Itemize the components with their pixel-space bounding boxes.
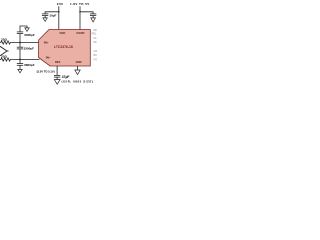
wire OVDD supply xyxy=(79,6,81,29)
svg-text:REF: REF xyxy=(55,60,61,64)
node OVDD branch junction dot xyxy=(79,11,81,13)
capacitor C5 OVDD bypass xyxy=(90,14,96,18)
capacitor C3 6800pF bottom xyxy=(17,60,23,70)
capacitor C1 6800pF top xyxy=(17,26,27,43)
ground for C3 xyxy=(18,69,22,73)
wire top path to node A xyxy=(11,42,38,44)
node A junction dot xyxy=(19,42,21,44)
ground for C1 xyxy=(25,28,29,32)
wire VDD bypass branch xyxy=(45,12,59,14)
svg-text:47µF: 47µF xyxy=(62,75,70,79)
svg-text:6800pF: 6800pF xyxy=(24,33,35,37)
ground for C5 xyxy=(91,18,96,22)
ground for C4 xyxy=(43,18,47,22)
ground for GND pin xyxy=(75,70,80,75)
svg-text:SC: SC xyxy=(93,37,97,40)
svg-text:25Ω: 25Ω xyxy=(1,38,7,42)
node B junction dot xyxy=(19,59,21,61)
wire GND pin down xyxy=(77,66,79,70)
svg-text:SD: SD xyxy=(93,41,97,44)
capacitor C6 47uF REF bypass xyxy=(54,75,60,79)
svg-text:(X5R, 0805 SIZE): (X5R, 0805 SIZE) xyxy=(62,79,94,83)
capacitor C2 3300pF between paths xyxy=(17,43,23,60)
svg-text:RDL: RDL xyxy=(92,32,97,35)
svg-text:1.8V TO 5V: 1.8V TO 5V xyxy=(70,2,90,6)
wire VDD supply xyxy=(58,6,60,29)
svg-text:OV DD: OV DD xyxy=(76,31,84,35)
wire bottom path to node B xyxy=(11,59,39,61)
svg-text:25Ω: 25Ω xyxy=(1,55,7,59)
resistor R2 25ohm bottom xyxy=(0,58,11,61)
svg-text:(2.5V TO 5.1V): (2.5V TO 5.1V) xyxy=(37,70,55,74)
wire REF pin down xyxy=(56,66,58,75)
ADC U2 LTC2376-18 body xyxy=(39,30,91,67)
op-amp U1 driver (cropped at left edge) xyxy=(0,46,9,56)
svg-text:PO: PO xyxy=(94,58,98,61)
wire OVDD bypass branch xyxy=(80,12,93,14)
resistor R1 25ohm top xyxy=(0,41,11,44)
svg-text:3300pF: 3300pF xyxy=(24,47,35,51)
svg-text:IN+: IN+ xyxy=(44,40,49,44)
svg-text:V DD: V DD xyxy=(59,31,65,35)
capacitor C4 10uF VDD bypass xyxy=(42,14,48,18)
svg-text:BU: BU xyxy=(94,54,98,57)
svg-text:2.5V: 2.5V xyxy=(57,2,63,6)
node VDD branch junction dot xyxy=(58,11,60,13)
svg-text:LTC2376-18: LTC2376-18 xyxy=(54,45,73,49)
svg-text:6800pF: 6800pF xyxy=(24,63,35,67)
svg-text:10µF: 10µF xyxy=(49,14,56,18)
svg-text:IN−: IN− xyxy=(46,55,51,59)
ground for C6 xyxy=(54,80,60,85)
svg-text:GND: GND xyxy=(76,60,82,64)
svg-text:CN: CN xyxy=(94,50,98,53)
